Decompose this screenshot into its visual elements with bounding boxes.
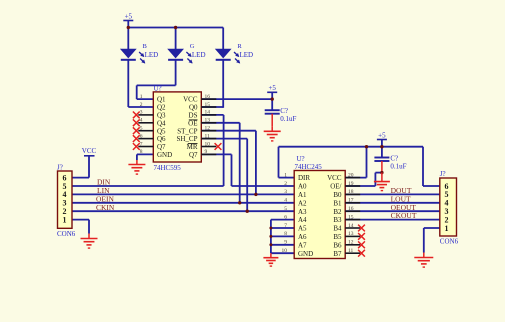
svg-text:9: 9 — [284, 240, 287, 246]
svg-text:+5: +5 — [378, 131, 386, 139]
svg-text:MR: MR — [187, 143, 198, 151]
svg-text:74HC595: 74HC595 — [154, 164, 182, 172]
svg-text:DS: DS — [189, 112, 198, 120]
svg-text:C?: C? — [280, 107, 288, 115]
svg-text:U?: U? — [154, 85, 162, 93]
svg-text:G: G — [190, 43, 195, 50]
svg-text:A3: A3 — [298, 208, 307, 216]
svg-text:18: 18 — [348, 189, 354, 195]
svg-text:A0: A0 — [298, 183, 307, 191]
svg-text:B1: B1 — [333, 199, 342, 207]
svg-text:12: 12 — [348, 240, 354, 246]
svg-text:Q6: Q6 — [157, 135, 166, 143]
svg-text:10: 10 — [282, 248, 288, 254]
svg-text:SH_CP: SH_CP — [176, 135, 197, 143]
svg-text:B6: B6 — [333, 241, 342, 249]
svg-text:R: R — [237, 43, 242, 50]
svg-text:VCC: VCC — [327, 174, 342, 182]
svg-text:10: 10 — [205, 141, 211, 147]
svg-text:+5: +5 — [125, 12, 133, 20]
svg-text:74HC245: 74HC245 — [295, 163, 323, 171]
svg-text:A2: A2 — [298, 199, 307, 207]
svg-text:A4: A4 — [298, 216, 307, 224]
svg-text:14: 14 — [348, 223, 354, 229]
svg-text:14: 14 — [205, 110, 211, 116]
svg-text:2: 2 — [284, 181, 287, 187]
svg-text:15: 15 — [205, 102, 211, 108]
svg-text:13: 13 — [205, 118, 211, 124]
svg-text:4: 4 — [284, 198, 287, 204]
svg-text:LED: LED — [192, 51, 206, 59]
svg-text:Q5: Q5 — [157, 127, 166, 135]
svg-text:J?: J? — [440, 170, 446, 178]
svg-text:5: 5 — [284, 206, 287, 212]
svg-text:A1: A1 — [298, 191, 307, 199]
svg-text:DIR: DIR — [298, 174, 310, 182]
svg-text:20: 20 — [348, 172, 354, 178]
svg-text:19: 19 — [348, 181, 354, 187]
svg-text:13: 13 — [348, 231, 354, 237]
svg-text:B4: B4 — [333, 225, 342, 233]
svg-text:1: 1 — [445, 224, 449, 233]
svg-text:B2: B2 — [333, 208, 342, 216]
svg-text:CKIN: CKIN — [96, 203, 115, 212]
svg-text:VCC: VCC — [82, 147, 97, 155]
svg-text:1: 1 — [140, 94, 143, 100]
svg-text:Q4: Q4 — [157, 119, 166, 127]
svg-text:CON6: CON6 — [57, 230, 76, 238]
svg-text:LED: LED — [240, 51, 254, 59]
svg-text:ST_CP: ST_CP — [177, 127, 197, 135]
svg-text:4: 4 — [140, 118, 143, 124]
svg-text:CON6: CON6 — [440, 237, 459, 245]
svg-text:9: 9 — [205, 149, 208, 155]
svg-text:B: B — [143, 43, 148, 50]
svg-text:J?: J? — [57, 163, 63, 171]
svg-text:C?: C? — [390, 154, 398, 162]
svg-text:11: 11 — [205, 133, 211, 139]
svg-text:Q2: Q2 — [157, 104, 166, 112]
svg-text:CKOUT: CKOUT — [391, 211, 417, 220]
svg-text:B5: B5 — [333, 233, 342, 241]
svg-text:B7: B7 — [333, 250, 342, 258]
svg-text:Q1: Q1 — [157, 96, 166, 104]
svg-text:12: 12 — [205, 126, 211, 132]
svg-text:VCC: VCC — [183, 96, 198, 104]
svg-text:+5: +5 — [268, 84, 276, 92]
svg-text:A6: A6 — [298, 233, 307, 241]
svg-text:0.1uF: 0.1uF — [280, 115, 296, 123]
svg-text:3: 3 — [284, 189, 287, 195]
svg-text:6: 6 — [140, 133, 143, 139]
svg-text:8: 8 — [284, 231, 287, 237]
svg-text:GND: GND — [157, 151, 172, 159]
svg-text:B3: B3 — [333, 216, 342, 224]
svg-text:3: 3 — [140, 110, 143, 116]
svg-text:8: 8 — [140, 149, 143, 155]
svg-text:LED: LED — [145, 51, 159, 59]
svg-text:5: 5 — [140, 126, 143, 132]
svg-text:6: 6 — [284, 214, 287, 220]
svg-text:A5: A5 — [298, 225, 307, 233]
svg-text:Q3: Q3 — [157, 112, 166, 120]
svg-text:1: 1 — [284, 172, 287, 178]
svg-text:16: 16 — [205, 94, 211, 100]
svg-text:11: 11 — [348, 248, 354, 254]
svg-text:A7: A7 — [298, 241, 307, 249]
svg-text:1: 1 — [63, 215, 67, 224]
svg-text:B0: B0 — [333, 191, 342, 199]
svg-text:7: 7 — [140, 141, 143, 147]
svg-text:U?: U? — [297, 155, 305, 163]
svg-text:Q7: Q7 — [157, 143, 166, 151]
svg-text:17: 17 — [348, 198, 354, 204]
svg-text:2: 2 — [140, 102, 143, 108]
svg-text:0.1uF: 0.1uF — [390, 162, 406, 170]
svg-text:OE/: OE/ — [330, 183, 341, 191]
svg-text:OE: OE — [188, 119, 197, 127]
svg-text:Q0: Q0 — [189, 104, 198, 112]
svg-text:15: 15 — [348, 214, 354, 220]
svg-text:Q7: Q7 — [189, 151, 198, 159]
svg-text:7: 7 — [284, 223, 287, 229]
svg-text:GND: GND — [298, 250, 313, 258]
svg-text:16: 16 — [348, 206, 354, 212]
